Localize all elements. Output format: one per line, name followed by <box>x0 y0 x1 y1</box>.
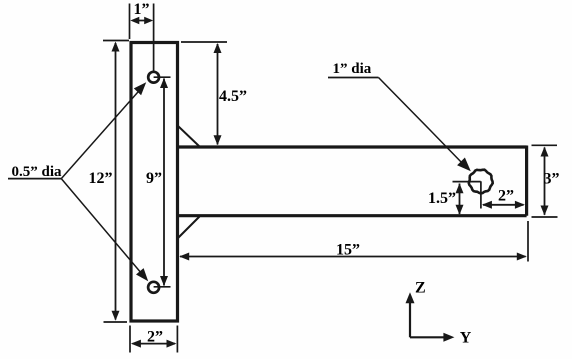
dimension 4.5": top extension line <box>181 41 227 43</box>
dimension 2" (beam): dim line <box>483 204 524 206</box>
axis Y arrowhead <box>443 333 454 342</box>
svg-text:15”: 15” <box>336 242 360 259</box>
dimension 1.5": dim line <box>459 184 461 215</box>
dimension 15": left arrowhead <box>179 253 189 261</box>
dimension 12": top arrowhead <box>112 42 120 52</box>
dimension 9": top arrowhead <box>160 78 168 88</box>
axis Z arrowhead <box>406 292 415 303</box>
dimension 3": top extension line <box>532 144 558 146</box>
leader to hole H3 <box>379 78 465 166</box>
leader to hole H2 <box>61 179 142 274</box>
dimension 2" (beam): left arrowhead <box>482 201 492 209</box>
label 1" dia: underline <box>328 77 379 79</box>
dimension 1.5": bottom arrowhead <box>456 205 464 215</box>
svg-text:2”: 2” <box>498 188 514 205</box>
dimension 2" (beam): right arrowhead <box>515 201 525 209</box>
dimension 12": bottom tick <box>104 321 128 323</box>
wire: centerline through top hole (1" dim extension) <box>153 4 155 78</box>
leader to hole H1: arrowhead <box>134 82 146 95</box>
dimension 15": dim line <box>180 256 526 258</box>
svg-text:4.5”: 4.5” <box>219 88 247 105</box>
hole H3 1" dia <box>469 170 493 194</box>
dimension 15": right extension line <box>527 221 529 262</box>
vertical plate (2" x 12" flange) <box>131 43 178 322</box>
svg-text:Y: Y <box>460 330 472 347</box>
wire: vertical centerline of hole H3 <box>480 181 482 208</box>
dimension 9": dim line <box>163 79 165 286</box>
dimension 3": dim line <box>544 148 546 215</box>
dimension 1.5": top arrowhead <box>456 183 464 193</box>
axis Y line <box>410 336 445 338</box>
dimension 1" top: arrow line <box>133 20 152 22</box>
dimension 3": bottom arrowhead <box>541 206 549 216</box>
leader to hole H2: arrowhead <box>136 268 148 281</box>
leader to hole H3: arrowhead <box>457 158 471 172</box>
svg-text:0.5” dia: 0.5” dia <box>12 164 63 180</box>
dimension 12": bottom arrowhead <box>112 311 120 321</box>
dimension 2" (bottom): right arrowhead <box>167 340 177 348</box>
dimension 9": bottom tick <box>154 286 171 288</box>
svg-text:Z: Z <box>415 280 426 297</box>
hole H2 bottom 0.5" dia <box>148 282 159 293</box>
dimension 9": bottom arrowhead <box>160 276 168 286</box>
axis Z line <box>409 301 411 337</box>
dimension 1.5": top tick <box>453 181 481 183</box>
dimension 2" (bottom): right extension line <box>176 326 178 353</box>
dimension 4.5": top arrowhead <box>214 43 222 53</box>
dimension 2" (bottom): dim line <box>133 343 176 345</box>
svg-text:1” dia: 1” dia <box>333 61 372 77</box>
svg-text:1”: 1” <box>134 1 150 18</box>
dimension 15": right arrowhead <box>517 253 527 261</box>
leader to hole H1 <box>61 88 141 179</box>
dimension 12": top tick <box>103 40 129 42</box>
dimension 2" (bottom): left extension line <box>129 326 131 353</box>
dimension 1" top: left arrowhead <box>130 17 139 24</box>
dimension 4.5": bottom arrowhead <box>214 135 222 145</box>
upper gusset <box>178 126 200 147</box>
svg-text:12”: 12” <box>89 170 113 187</box>
lower gusset <box>178 217 200 239</box>
svg-text:2”: 2” <box>147 329 163 346</box>
horizontal beam (15" x 3" web) <box>178 146 527 216</box>
svg-text:3”: 3” <box>544 171 560 188</box>
svg-text:1.5”: 1.5” <box>428 190 456 207</box>
dimension 12": dim line <box>115 43 117 320</box>
dimension 2" (bottom): left arrowhead <box>131 340 141 348</box>
dimension 3": bottom extension line <box>532 216 558 218</box>
svg-text:9”: 9” <box>146 170 162 187</box>
dimension 4.5": dim line <box>217 44 219 145</box>
dimension 3": top arrowhead <box>541 147 549 157</box>
hole H1 top 0.5" dia <box>148 72 159 83</box>
label 0.5" dia: underline <box>8 178 61 180</box>
dimension 1" top: right arrowhead <box>144 17 153 24</box>
dimension 1" top: left extension line <box>129 4 131 40</box>
dimension 9": top tick <box>154 76 171 78</box>
